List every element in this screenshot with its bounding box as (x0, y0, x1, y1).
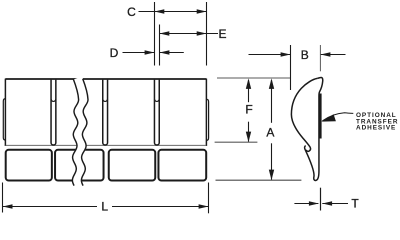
adhesive bar on back of profile (319, 94, 322, 139)
bottom rail box 3 (109, 150, 156, 181)
front view top edge (5, 78, 206, 80)
svg-text:T: T (351, 197, 359, 211)
bottom rail box 2 (55, 150, 104, 181)
slot 1 bridge web (51, 99, 56, 101)
extension line for C/D at slot3 left (154, 2, 156, 66)
extension line for D/E at slot3 right (159, 25, 161, 66)
dimension E (160, 31, 219, 36)
extension line for C/E at strip right edge (206, 2, 208, 66)
slot 1 between finger 1 and finger 2 (51, 80, 56, 145)
bottom rail box 1 (6, 150, 52, 181)
dimension T (294, 201, 348, 206)
svg-text:A: A (266, 126, 274, 140)
slot 3 between finger 3 and finger 4 (154, 80, 159, 145)
dimension C (139, 9, 207, 14)
bottom rail box 4 (158, 150, 206, 181)
extension line for B at bulge left (290, 45, 292, 90)
extension line gray: strip top edge to A arrow area (217, 77, 291, 79)
dimension D (123, 50, 184, 55)
svg-text:D: D (110, 46, 119, 60)
svg-text:F: F (245, 102, 252, 116)
front view right edge (205, 79, 207, 146)
extension line for B at back right (319, 45, 321, 71)
profile top folded tip, flat back, bottom fold and inner return leg (305, 78, 323, 181)
front view left edge (4, 79, 6, 146)
svg-text:L: L (101, 200, 108, 214)
slot 2 bridge web (103, 99, 108, 101)
adhesive leader arrow (321, 113, 353, 122)
svg-text:B: B (301, 48, 309, 62)
extension line for L right (208, 183, 210, 214)
right end tab (206, 99, 208, 140)
dimension F (246, 78, 251, 142)
left end tab (3, 99, 5, 141)
slot 2 between finger 2 and finger 3 (103, 80, 108, 145)
dimension L (3, 204, 209, 209)
svg-text:E: E (218, 27, 226, 41)
extension line gray: finger tip line (F bottom) (215, 141, 258, 143)
svg-text:ADHESIVE: ADHESIVE (356, 125, 396, 132)
profile front bulge curve with lower curled free end (291, 78, 317, 151)
extension line for L left (2, 183, 4, 213)
front view bottom thin edge (5, 144, 206, 146)
dimension B (249, 52, 346, 57)
svg-text:C: C (127, 5, 136, 19)
slot 3 bridge web (154, 99, 159, 101)
break band mask (77, 78, 83, 186)
break wavy line left (72, 79, 78, 186)
extension line gray: strip bottom edge to A arrow area (216, 179, 302, 181)
dimension A (269, 78, 274, 180)
profile view (side section of finger) (291, 78, 322, 181)
extension line for T below profile (320, 188, 322, 211)
break wavy line right (81, 79, 88, 186)
